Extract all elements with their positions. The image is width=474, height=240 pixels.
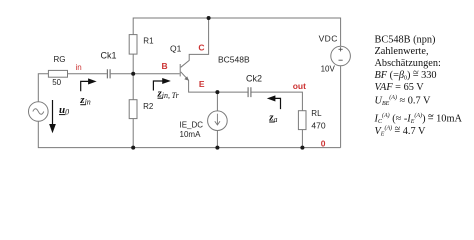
svg-text:VDC: VDC xyxy=(319,34,338,44)
svg-text:Q1: Q1 xyxy=(170,44,182,54)
svg-text:10mA: 10mA xyxy=(180,130,202,139)
svg-text:VE(A) ~= 4.7 V: VE(A) ~= 4.7 V xyxy=(375,123,427,138)
svg-text:RL: RL xyxy=(311,109,322,118)
svg-text:C: C xyxy=(198,42,204,52)
svg-text:50: 50 xyxy=(52,78,61,87)
svg-text:Ck1: Ck1 xyxy=(101,50,117,60)
svg-text:B: B xyxy=(162,61,168,71)
svg-text:UBE(A) ≈ 0.7 V: UBE(A) ≈ 0.7 V xyxy=(375,94,432,107)
svg-text:out: out xyxy=(293,81,306,91)
svg-text:RG: RG xyxy=(54,55,66,64)
svg-text:Ck2: Ck2 xyxy=(246,74,262,84)
svg-text:Zahlenwerte,: Zahlenwerte, xyxy=(375,46,429,57)
svg-text:10V: 10V xyxy=(321,64,336,73)
svg-text:BC548B (npn): BC548B (npn) xyxy=(375,35,436,46)
svg-text:E: E xyxy=(199,79,205,89)
svg-text:R2: R2 xyxy=(143,102,154,111)
svg-text:IE_DC: IE_DC xyxy=(180,121,204,130)
svg-text:470: 470 xyxy=(311,121,325,131)
svg-text:IC(A) (≈ -IE(A)) ~= 10mA: IC(A) (≈ -IE(A)) ~= 10mA xyxy=(374,111,463,126)
svg-text:R1: R1 xyxy=(143,37,154,46)
svg-text:0: 0 xyxy=(321,138,326,148)
svg-text:in: in xyxy=(76,63,82,72)
svg-text:VAF = 65 V: VAF = 65 V xyxy=(375,82,425,93)
svg-text:Abschätzungen:: Abschätzungen: xyxy=(375,58,441,69)
svg-text:BC548B: BC548B xyxy=(218,54,250,64)
svg-text:BF (=β0) ~= 330: BF (=β0) ~= 330 xyxy=(375,67,437,82)
